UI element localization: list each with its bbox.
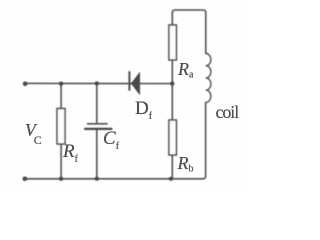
wire Cf bottom lead [96,129,98,178]
node Rf top junction [59,82,63,86]
label VC [25,120,42,149]
capacitor Cf top plate [88,123,108,125]
resistor Rb [169,120,177,155]
label Rb [178,153,194,175]
inductor coil bumps [206,54,211,103]
node diode/Ra/Rb junction [170,82,174,86]
wire Ra bottom lead [171,60,173,84]
wire bottom horizontal [25,103,206,179]
resistor Rf [57,109,65,145]
label Rf [63,141,78,165]
label Ra [178,59,193,81]
wire mid horizontal [25,82,172,84]
node Rf bottom junction [59,177,63,181]
node terminal bottom-left [23,177,28,182]
wire top loop (Ra branch top, top rail, coil branch top) [172,10,206,54]
label Df [135,98,152,122]
node terminal top-left [23,82,28,87]
node Cf top junction [95,81,99,85]
wire Rb top lead [171,84,173,120]
diode Df triangle [131,72,140,96]
label Cf [103,128,119,152]
node Cf bottom junction [95,177,99,181]
label coil [216,102,239,123]
node Rb bottom junction [169,177,173,181]
diode Df cathode bar [128,72,130,90]
wire Rb bottom lead [171,155,173,179]
resistor Ra [169,25,177,60]
wire Cf top lead [96,83,98,123]
capacitor Cf bottom plate [85,128,112,130]
wire Rf branch [60,84,62,179]
